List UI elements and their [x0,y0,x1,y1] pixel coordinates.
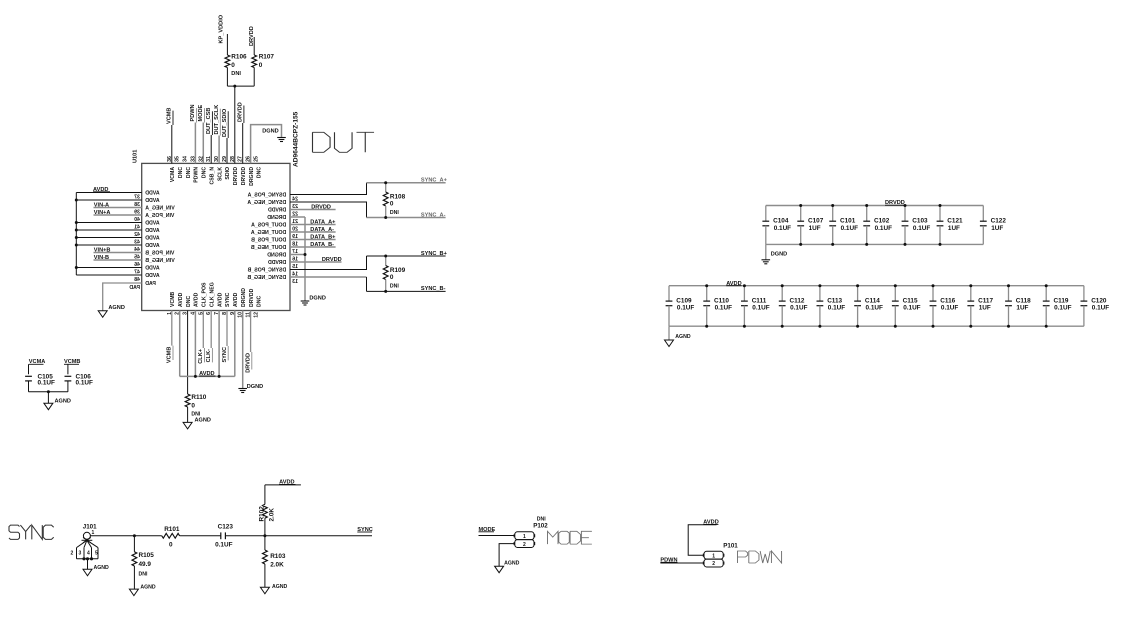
svg-text:C121: C121 [947,218,963,225]
svg-text:CLK-: CLK- [206,349,212,362]
U101 right pin numbers [292,196,298,284]
capacitor C101 [832,206,834,222]
svg-text:C111: C111 [752,297,767,304]
svg-text:C112: C112 [790,297,805,304]
svg-text:DNI: DNI [390,284,399,290]
svg-text:AVDD: AVDD [217,292,223,307]
svg-text:DSYNC_NEG_A: DSYNC_NEG_A [247,200,286,206]
svg-text:DNI: DNI [231,71,241,77]
junction AVDD rail pin7 [218,375,221,378]
svg-text:37: 37 [134,194,140,200]
wire PAD to AGND [103,283,142,311]
svg-text:DNI: DNI [390,210,399,216]
wire pin 10 to DGND [242,311,244,389]
net label CLK- (pin 6) [210,311,212,349]
svg-text:12: 12 [254,312,260,318]
svg-text:DGND: DGND [247,384,263,390]
wire R110 to AGND [187,407,189,422]
svg-text:PAD: PAD [145,281,156,287]
svg-text:C104: C104 [773,218,789,225]
svg-text:0.1UF: 0.1UF [76,380,93,387]
svg-text:DGND: DGND [771,251,787,257]
wire VCMA to C105 [28,364,30,374]
wire DRVDD bank bottom rail [766,243,984,245]
capacitor C121 [939,206,941,222]
svg-text:DRGND: DRGND [267,252,286,258]
svg-text:R105: R105 [139,552,155,559]
svg-text:SYNC_A-: SYNC_A- [421,212,446,218]
svg-text:48: 48 [134,277,140,283]
svg-text:SYNC_B+: SYNC_B+ [421,251,448,257]
junction AVDD rail pin4 [194,375,197,378]
svg-text:DOUT_POS_B: DOUT_POS_B [251,237,286,243]
svg-text:0.1UF: 0.1UF [215,541,232,548]
svg-text:P101: P101 [723,543,738,550]
svg-text:SYNC: SYNC [222,347,228,363]
svg-text:AVDD: AVDD [194,292,200,307]
svg-text:0.1UF: 0.1UF [866,305,883,312]
svg-text:AVDD: AVDD [145,273,160,279]
resistor R106 [225,55,230,68]
capacitor C119 [1045,286,1047,301]
svg-text:DUT_CSB: DUT_CSB [206,108,212,134]
connector J101 [71,523,99,569]
net label CLK+ (pin 5) [202,311,204,349]
svg-text:R108: R108 [390,194,406,201]
ground AGND (R105) [129,589,138,596]
wire pin 24 to SYNC_A+ [290,183,367,195]
svg-text:DRVDD: DRVDD [245,353,251,373]
svg-text:DOUT_NEG_B: DOUT_NEG_B [251,245,287,251]
svg-text:0.1UF: 0.1UF [774,225,791,232]
svg-text:3: 3 [79,551,82,557]
svg-text:43: 43 [134,239,140,245]
svg-text:DRVDD: DRVDD [233,167,239,186]
capacitor C116 [932,286,934,301]
capacitor C104 [765,206,767,222]
svg-text:SYNC_A+: SYNC_A+ [421,178,448,184]
svg-text:C101: C101 [840,218,856,225]
svg-text:VCMB: VCMB [167,347,173,363]
svg-text:5: 5 [95,551,98,557]
wire pin 26 to DGND [251,125,282,164]
svg-text:DNI: DNI [139,571,148,577]
svg-text:CSB_N: CSB_N [209,167,215,185]
svg-text:VCMB: VCMB [167,108,173,124]
svg-text:DUT_SCLK: DUT_SCLK [214,105,220,135]
wire pin 3 to R110 [187,311,189,395]
svg-text:C122: C122 [991,218,1007,225]
net label SYNC (pin 8) [226,311,228,347]
svg-text:0.1UF: 0.1UF [828,305,845,312]
svg-text:DRVDD: DRVDD [241,167,247,186]
svg-text:DATA_B+: DATA_B+ [310,234,336,240]
svg-text:AVDD: AVDD [178,292,184,307]
wire AVDD rail under chip [180,311,235,377]
svg-text:C119: C119 [1054,297,1069,304]
svg-text:CLK_POS: CLK_POS [202,282,208,307]
svg-text:AGND: AGND [140,584,156,590]
U101 bottom pin names [170,282,263,307]
junction R102/R103 [263,534,266,537]
svg-text:SYNC: SYNC [225,292,231,307]
U101 bottom pin numbers [167,312,260,318]
net DATA_A- wire+label (pin 19) [290,231,336,233]
svg-text:R109: R109 [390,267,406,274]
svg-text:DRGND: DRGND [267,215,286,221]
svg-text:DUT_SDIO: DUT_SDIO [222,108,228,137]
svg-text:0: 0 [231,62,235,69]
svg-text:DRGND: DRGND [241,288,247,307]
junction SYNC_B+ [384,255,387,258]
wire pin 23 to SYNC_A- [290,202,367,218]
svg-text:DRGND: DRGND [249,167,255,186]
capacitor C102 [866,206,868,222]
svg-text:2: 2 [712,561,715,567]
net label DRVDD (pin 11) [250,311,252,353]
wire AVDD left bus [76,193,141,276]
wire SYNC_A+ rail [367,182,446,184]
svg-text:AGND: AGND [195,417,211,423]
svg-text:C116: C116 [940,297,955,304]
net DATA_A+ wire+label (pin 20) [290,224,336,226]
capacitor C114 [857,286,859,301]
connector P102 [515,532,534,540]
junctions AVDD bank [705,284,1047,328]
svg-text:R101: R101 [164,526,180,533]
svg-text:AVDD: AVDD [145,228,160,234]
svg-text:J101: J101 [83,523,97,530]
net VIN+B wire+label (pin 45) [94,252,142,254]
svg-text:DGND: DGND [262,128,278,134]
U101 top pin numbers [167,156,260,162]
ground DGND (pin 10) [238,388,247,390]
ground AGND (pad) [98,311,107,318]
net VIN-A wire+label (pin 39) [94,207,142,209]
ground AGND (P102) [495,566,504,573]
junction VCM gnd [47,390,50,393]
svg-text:0.1UF: 0.1UF [941,305,958,312]
svg-text:AGND: AGND [504,561,520,567]
svg-text:DRVDD: DRVDD [322,257,342,263]
svg-text:C118: C118 [1016,297,1031,304]
svg-text:VIN_POS_A: VIN_POS_A [145,213,174,219]
junction SYNC_A+ [384,181,387,184]
svg-text:VIN_NEG_B: VIN_NEG_B [145,258,175,264]
svg-text:KP_VDDIO: KP_VDDIO [218,14,224,43]
svg-text:1UF: 1UF [979,305,991,312]
svg-text:0.1UF: 0.1UF [903,305,920,312]
wire SYNC_A- rail [367,217,446,219]
svg-text:DSYNC_POS_A: DSYNC_POS_A [247,192,286,198]
svg-text:R110: R110 [191,394,206,401]
svg-text:42: 42 [134,232,140,238]
net label MODE (pin 32) [202,123,204,164]
svg-text:PDWN: PDWN [190,104,196,121]
svg-text:25: 25 [254,156,260,162]
svg-text:PAD: PAD [129,285,140,291]
svg-text:0.1UF: 0.1UF [38,380,55,387]
wire R101 to C123 [180,535,221,537]
wire DRVDD to R107 [253,37,255,55]
net label VCMB (pin 36) [171,125,173,163]
svg-text:VIN+B: VIN+B [94,247,111,253]
svg-text:AGND: AGND [55,399,71,405]
svg-text:R103: R103 [270,553,286,560]
svg-text:VIN-B: VIN-B [94,255,109,261]
svg-text:40: 40 [134,217,140,223]
svg-text:AGND: AGND [272,584,288,590]
svg-text:49.9: 49.9 [139,561,152,568]
junction R105 tap [133,534,136,537]
svg-text:DATA_A-: DATA_A- [310,227,334,233]
net label DRVDD (pin 27) [242,123,244,163]
wire DRVDD bank top rail [766,205,984,207]
svg-text:U101: U101 [133,150,139,163]
wire AVDD bank bottom rail [669,325,1084,327]
wire KP_VDDIO to R106 [226,34,228,55]
capacitor C103 [904,206,906,222]
svg-text:0: 0 [169,541,173,548]
svg-text:2.0K: 2.0K [268,508,275,522]
svg-text:C123: C123 [218,524,234,531]
svg-text:AVDD: AVDD [145,198,160,204]
op-amp U1 IC body U101 [142,163,290,310]
connector P101 [704,551,723,559]
ground AGND (J101) [83,569,92,576]
capacitor C110 [706,286,708,301]
svg-text:SYNC_B-: SYNC_B- [421,286,446,292]
wire AVDD bank top rail [669,285,1084,287]
wire J101 pin1 to R101 [90,535,161,537]
svg-text:24: 24 [292,196,298,202]
svg-text:46: 46 [134,262,140,268]
net DRVDD wire+label (pin 22) [290,209,336,211]
svg-text:DRVDD: DRVDD [238,102,244,122]
svg-text:DNC: DNC [186,296,192,307]
svg-text:MODE: MODE [198,104,204,121]
svg-text:0.1UF: 0.1UF [677,305,694,312]
wire AVDD bank to AGND [668,326,670,340]
wire R106/R107 join to pin 28 [226,68,228,87]
svg-text:VIN_NEG_A: VIN_NEG_A [145,205,175,211]
svg-text:1UF: 1UF [809,225,821,232]
title text MODE [548,531,592,544]
net label DUT_SCLK (pin 30) [218,136,220,164]
svg-text:1UF: 1UF [1016,305,1028,312]
svg-text:0.1UF: 0.1UF [1092,305,1109,312]
ground AGND (R103) [260,587,269,594]
svg-text:R106: R106 [231,53,247,60]
svg-text:13: 13 [292,279,298,285]
svg-text:DSYNC_NEG_B: DSYNC_NEG_B [247,275,286,281]
svg-text:VCMB: VCMB [170,291,176,307]
capacitor C105 [25,375,32,377]
resistor R107 [252,55,257,68]
svg-text:DNC: DNC [257,167,263,178]
junction SYNC_A- [384,216,387,219]
svg-text:VIN_POS_B: VIN_POS_B [145,250,174,256]
svg-text:4: 4 [87,551,90,557]
ground DGND (DRVDD bank) [762,259,771,261]
svg-text:SCLK: SCLK [217,167,223,181]
svg-text:C113: C113 [827,297,842,304]
net VIN+A wire+label (pin 40) [94,214,142,216]
net DRVDD wire+label (pin 15) [290,261,342,263]
svg-text:AGND: AGND [108,305,124,311]
svg-text:AVDD: AVDD [145,265,160,271]
title text DUT [313,132,375,152]
svg-text:AVDD: AVDD [145,190,160,196]
svg-text:VIN-A: VIN-A [94,202,109,208]
wire P102 pin2 to AGND [499,544,515,567]
net VIN-B wire+label (pin 46) [94,259,142,261]
svg-text:DATA_A+: DATA_A+ [310,219,336,225]
net label DUT_CSB (pin 31) [210,135,212,163]
ground AGND (VCM) [44,403,53,410]
svg-text:DATA_B-: DATA_B- [310,242,334,248]
svg-text:0.1UF: 0.1UF [715,305,732,312]
svg-text:AVDD: AVDD [145,235,160,241]
svg-text:0: 0 [259,62,263,69]
junction SYNC_B- [384,290,387,293]
capacitor C120 [1083,286,1085,301]
svg-text:DSYNC_POS_B: DSYNC_POS_B [247,267,286,273]
svg-text:47: 47 [134,269,140,275]
svg-text:2: 2 [523,542,526,548]
svg-text:DOUT_POS_A: DOUT_POS_A [251,222,286,228]
svg-text:C115: C115 [903,297,918,304]
svg-text:R107: R107 [259,53,275,60]
resistor R105 [133,536,135,552]
resistor R103 [264,536,266,550]
svg-text:1: 1 [523,534,526,540]
svg-text:0: 0 [390,201,394,208]
wire R102 to AVDD [265,484,301,486]
ground DGND (top) [277,137,286,139]
capacitor C117 [970,286,972,301]
capacitor C106 [65,375,72,377]
svg-text:2: 2 [71,551,74,557]
svg-text:DRVDD: DRVDD [249,288,255,307]
capacitor C118 [1008,286,1010,301]
U101 right pin names [247,192,286,281]
wire DRVDD bank to DGND [765,244,767,259]
svg-text:1: 1 [712,553,715,559]
svg-text:35: 35 [175,156,181,162]
capacitor C109 [668,286,670,301]
junction DRGND bus [304,253,307,256]
capacitor C107 [800,206,802,222]
svg-text:C110: C110 [714,297,729,304]
svg-text:C107: C107 [808,218,824,225]
svg-text:C120: C120 [1091,297,1107,304]
svg-text:41: 41 [134,224,140,230]
ground AGND (AVDD bank) [665,340,674,347]
svg-text:DGND: DGND [309,296,325,302]
net label VCMB (pin 1) [171,311,173,346]
wire SYNC_B- rail [367,290,446,292]
svg-text:AGND: AGND [675,334,691,340]
wire PDWN to P101 pin2 [660,562,704,564]
svg-text:C109: C109 [676,297,692,304]
title text SYNC [9,525,54,539]
svg-text:0.1UF: 0.1UF [841,225,858,232]
svg-text:AD9644BCPZ-155: AD9644BCPZ-155 [293,111,300,167]
net label DUT_SDIO (pin 29) [226,138,228,163]
svg-text:R102: R102 [259,506,266,522]
svg-text:AVDD: AVDD [145,220,160,226]
wire AVDD to P101 pin1 [688,525,716,555]
svg-text:2.0K: 2.0K [270,562,284,569]
resistor R108 [385,183,387,192]
svg-text:C103: C103 [912,218,928,225]
svg-text:DRVDD: DRVDD [268,207,287,213]
net DATA_B+ wire+label (pin 18) [290,239,336,241]
net label PDWN (pin 33) [194,123,196,164]
svg-text:CLK_NEG: CLK_NEG [209,282,215,307]
svg-text:VCMA: VCMA [170,167,176,183]
U101 left pin numbers [134,194,140,282]
junction dots on AVDD bus [75,199,78,270]
svg-text:DRVDD: DRVDD [311,204,331,210]
svg-text:SDIO: SDIO [225,167,231,180]
svg-text:DOUT_NEG_A: DOUT_NEG_A [251,230,287,236]
svg-text:0.1UF: 0.1UF [913,225,930,232]
wire VCMB to C106 [67,364,69,374]
svg-text:DNC: DNC [257,296,263,307]
wire C123 to junction and SYNC out [226,535,373,537]
capacitor C115 [894,286,896,301]
net DATA_B- wire+label (pin 17) [290,246,336,248]
svg-text:0.1UF: 0.1UF [790,305,807,312]
svg-text:0: 0 [191,402,195,409]
svg-text:AVDD: AVDD [145,243,160,249]
wire MODE to P102 pin1 [479,535,515,537]
svg-text:CLK+: CLK+ [198,348,204,363]
ground DGND (right bus) [301,300,310,302]
wire SYNC_B+ rail [367,255,446,257]
ground AGND (R110) [183,422,192,429]
junction pin28 net [233,85,236,88]
svg-text:DRVDD: DRVDD [268,260,287,266]
svg-text:AGND: AGND [94,565,110,571]
svg-text:0.1UF: 0.1UF [875,225,892,232]
svg-text:1UF: 1UF [948,225,960,232]
capacitor C123 [220,532,222,539]
svg-text:AVDD: AVDD [233,292,239,307]
resistor R102 [264,518,266,536]
svg-text:C114: C114 [865,297,880,304]
capacitor C111 [743,286,745,301]
svg-text:C117: C117 [978,297,993,304]
U101 top pin names [170,167,263,186]
svg-text:DNC: DNC [178,167,184,178]
svg-text:PDWN: PDWN [194,167,200,183]
capacitor C122 [982,206,984,222]
resistor R109 [385,256,387,266]
svg-text:0.1UF: 0.1UF [1054,305,1071,312]
wire pin 13 to SYNC_B- [290,276,367,278]
title text PDWN [738,551,782,563]
svg-text:DNC: DNC [202,167,208,178]
wire pin 14 to SYNC_B+ [290,256,367,270]
capacitor C113 [819,286,821,301]
svg-text:DNC: DNC [186,167,192,178]
junctions DRVDD bank [799,204,941,246]
resistor R101 [162,533,180,538]
svg-text:34: 34 [183,156,189,162]
